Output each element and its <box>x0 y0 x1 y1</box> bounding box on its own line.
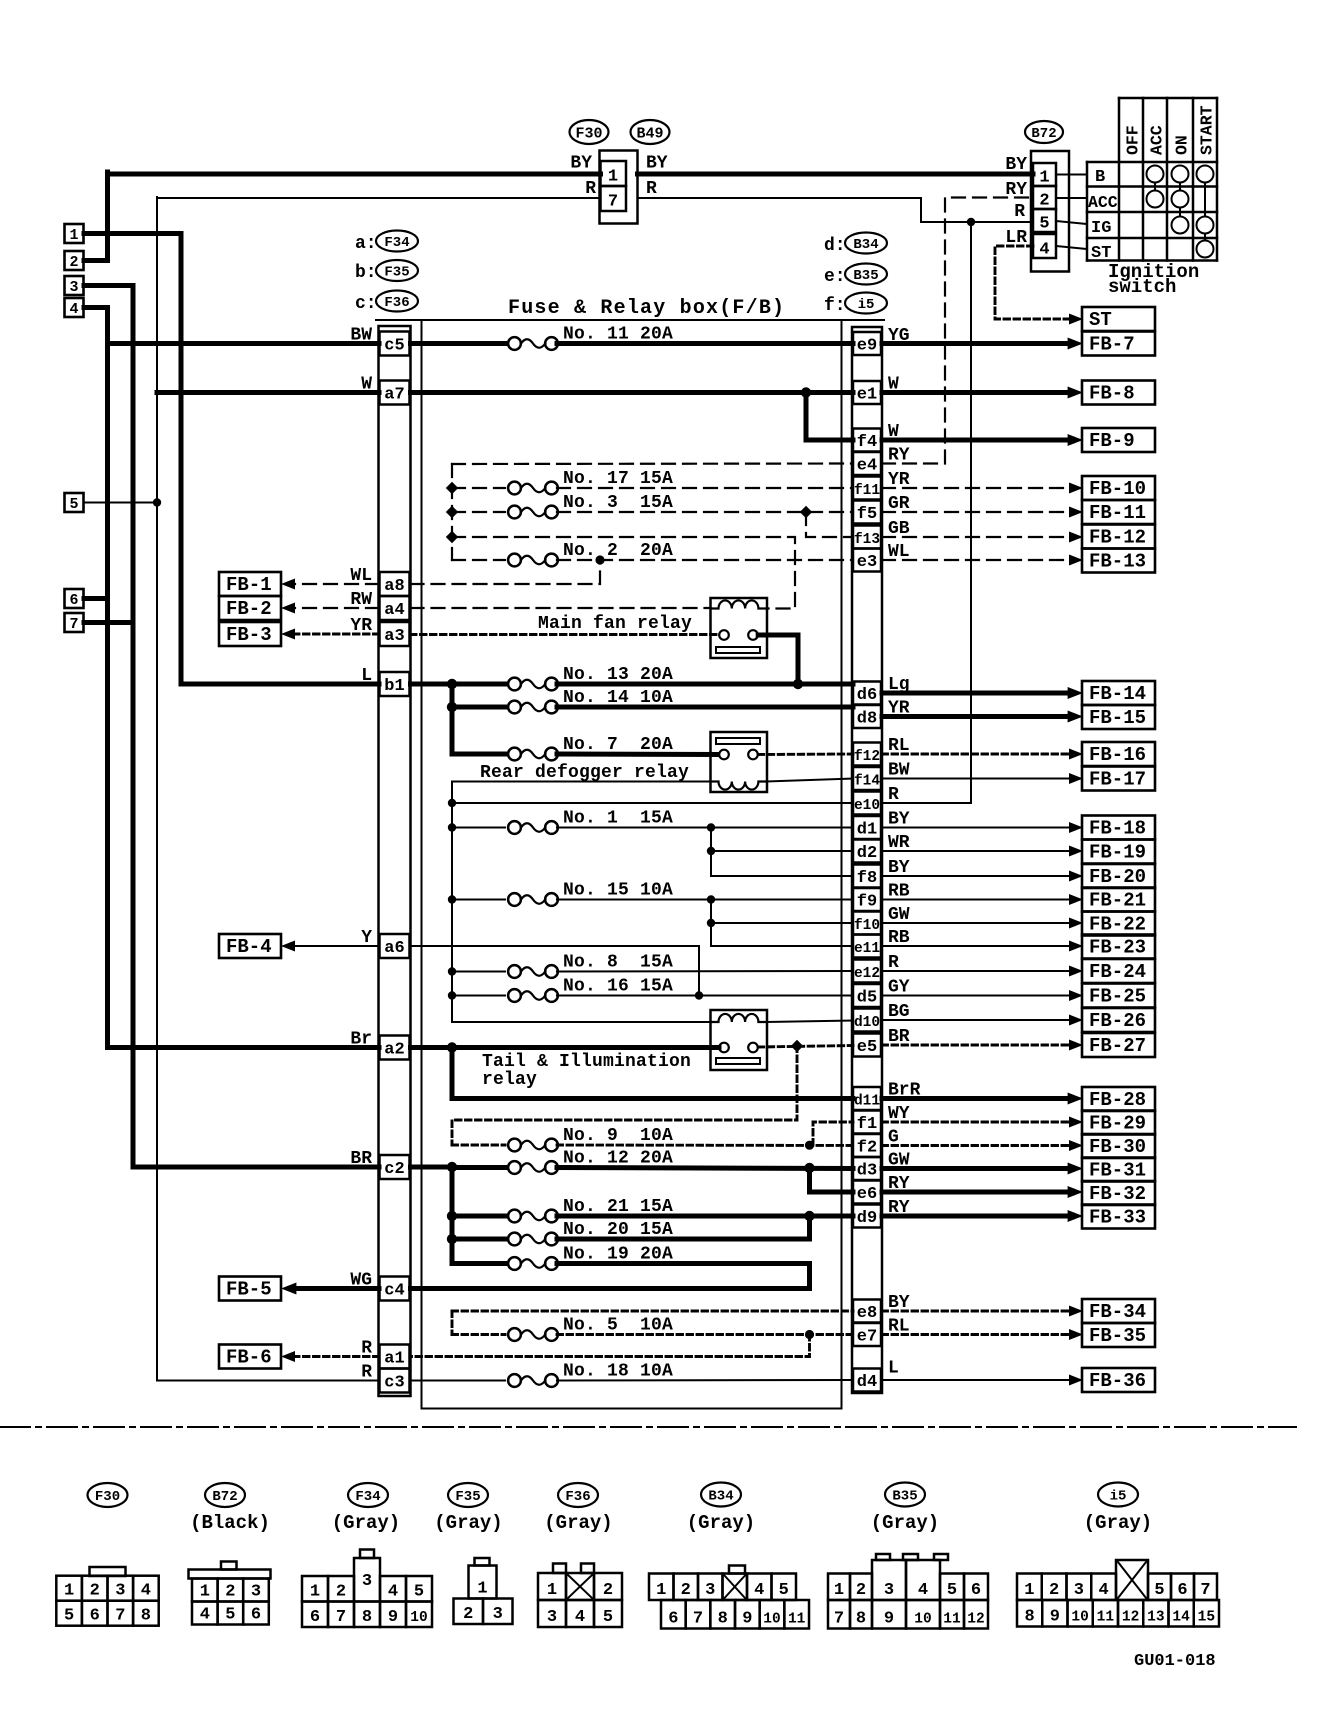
svg-text:No. 8 15A: No. 8 15A <box>563 953 673 973</box>
wire into FB-10 <box>882 487 1070 489</box>
svg-text:3: 3 <box>115 1582 125 1601</box>
cell e9 <box>853 332 881 355</box>
FB-27 box <box>1082 1033 1155 1057</box>
svg-text:No. 2 20A: No. 2 20A <box>563 541 673 561</box>
svg-text:FB-8: FB-8 <box>1089 383 1135 405</box>
svg-text:e8: e8 <box>857 1304 877 1323</box>
connector B72 body bracket <box>1031 151 1069 272</box>
FB-8 box <box>1082 381 1155 405</box>
wire into FB-23 <box>882 945 1070 947</box>
svg-text:i5: i5 <box>858 297 875 313</box>
FB-16 box <box>1082 742 1155 766</box>
bottom connector B35 pins <box>828 1574 850 1601</box>
svg-text:GU01-018: GU01-018 <box>1134 1652 1216 1671</box>
FB-31 box <box>1082 1158 1155 1182</box>
diamond junction e5 branch <box>791 1040 803 1052</box>
svg-text:3: 3 <box>884 1581 894 1600</box>
wire a3 YR to FB-3 <box>294 633 379 636</box>
cell f2 <box>853 1134 881 1157</box>
wire rail f13 branch to fan relay coil <box>452 537 795 609</box>
svg-text:F34: F34 <box>355 1489 380 1505</box>
svg-text:1: 1 <box>834 1581 844 1600</box>
FB-14 box <box>1082 681 1155 705</box>
svg-text:(Gray): (Gray) <box>687 1512 755 1534</box>
node box 1 <box>65 224 84 243</box>
FB-25 box <box>1082 984 1155 1008</box>
svg-text:7: 7 <box>1200 1581 1210 1600</box>
wire fuse No.19 down to c4 <box>557 1264 810 1289</box>
wire to fuse No.5 <box>452 1333 505 1336</box>
svg-text:a8: a8 <box>384 577 404 596</box>
bottom connector F30 ellipse <box>88 1483 128 1507</box>
svg-text:6: 6 <box>90 1607 100 1626</box>
b1 rail down <box>450 684 455 754</box>
wire tail relay output to e5 <box>758 1046 853 1048</box>
svg-text:FB-30: FB-30 <box>1089 1136 1146 1158</box>
svg-text:F36: F36 <box>384 295 409 311</box>
wire c2 BR into fusebox <box>411 1165 453 1170</box>
FB-36 box <box>1082 1368 1155 1392</box>
svg-text:c3: c3 <box>384 1374 404 1393</box>
ignition contacts row ACC <box>1147 191 1164 208</box>
svg-text:FB-27: FB-27 <box>1089 1035 1146 1057</box>
main fan relay box <box>711 598 768 658</box>
wire into FB-33 <box>882 1214 1070 1219</box>
FB-4 box <box>219 934 281 958</box>
svg-text:FB-34: FB-34 <box>1089 1301 1146 1323</box>
svg-text:d3: d3 <box>857 1162 877 1181</box>
fuse No.9 10A <box>508 1139 521 1152</box>
fuse No.21 15A <box>508 1210 521 1223</box>
bottom connector F36 pins <box>538 1573 566 1600</box>
rear defogger relay box <box>711 732 768 792</box>
FB-17 box <box>1082 767 1155 791</box>
svg-text:f10: f10 <box>854 918 880 934</box>
FB-9 box <box>1082 428 1155 452</box>
svg-text:FB-31: FB-31 <box>1089 1160 1146 1182</box>
svg-text:2: 2 <box>1049 1581 1059 1600</box>
branch No.1 down to f8 <box>710 828 712 877</box>
wire into FB-25 <box>882 995 1070 997</box>
wire into FB-24 <box>882 970 1070 972</box>
wire defogger relay output RL to f12 <box>758 753 853 756</box>
junction No.1 branch <box>707 823 715 831</box>
svg-text:FB-33: FB-33 <box>1089 1207 1146 1229</box>
svg-text:No. 1 15A: No. 1 15A <box>563 809 673 829</box>
svg-text:FB-13: FB-13 <box>1089 551 1146 573</box>
cell a2 <box>380 1036 410 1060</box>
svg-text:FB-23: FB-23 <box>1089 937 1146 959</box>
cell d6 <box>853 682 881 705</box>
svg-text:7: 7 <box>693 1610 703 1629</box>
svg-text:1: 1 <box>477 1580 487 1599</box>
svg-text:2: 2 <box>681 1581 691 1600</box>
wire a2 Br to tail relay contact <box>411 1045 720 1050</box>
svg-text:1: 1 <box>1024 1581 1034 1600</box>
wire fuse No.5 to e7 <box>557 1333 853 1336</box>
wire BrR d11 line <box>452 1096 853 1101</box>
wire into FB-14 <box>882 691 1070 696</box>
svg-text:3: 3 <box>362 1572 372 1591</box>
fuse No.18 10A <box>508 1374 521 1387</box>
cell f13 <box>853 526 881 549</box>
svg-text:F30: F30 <box>575 125 602 142</box>
svg-text:7: 7 <box>834 1610 844 1629</box>
wire into FB-34 <box>882 1310 1070 1313</box>
svg-text:F34: F34 <box>384 235 409 251</box>
svg-text:FB-6: FB-6 <box>226 1347 272 1369</box>
svg-text:c:: c: <box>355 294 377 314</box>
svg-text:B49: B49 <box>636 125 663 142</box>
junction a6 joins No.16 line <box>695 991 703 999</box>
wire fuse No.16 to d5 <box>557 995 853 997</box>
svg-text:9: 9 <box>884 1610 894 1629</box>
cell d11 <box>853 1087 881 1110</box>
svg-text:1: 1 <box>64 1582 74 1601</box>
rear defogger relay coil <box>711 782 767 790</box>
bottom connector B35 pins 3-4 tall <box>872 1560 906 1600</box>
svg-text:FB-15: FB-15 <box>1089 707 1146 729</box>
wire a3 YR to fan relay contact <box>411 633 720 636</box>
svg-text:4: 4 <box>388 1583 398 1602</box>
svg-text:6: 6 <box>251 1606 261 1625</box>
tail relay coil <box>711 1014 767 1022</box>
svg-text:2: 2 <box>463 1605 473 1624</box>
cell b1 <box>380 672 410 696</box>
svg-text:BY: BY <box>570 154 592 174</box>
svg-text:FB-35: FB-35 <box>1089 1325 1146 1347</box>
pin 1 of F30/B49 <box>601 161 627 186</box>
fuse box left edge <box>421 320 423 1409</box>
FB-11 box <box>1082 500 1155 524</box>
svg-text:FB-11: FB-11 <box>1089 502 1146 524</box>
wire a4 RW to FB-2 <box>294 607 379 609</box>
fuse No.14 10A <box>508 701 521 714</box>
dashed e8 BY top line <box>452 1310 853 1313</box>
svg-text:3: 3 <box>547 1608 557 1627</box>
svg-text:5: 5 <box>779 1581 789 1600</box>
wire d10 BG from tail coil <box>767 1021 854 1023</box>
FB-21 box <box>1082 888 1155 912</box>
svg-text:d6: d6 <box>857 686 877 705</box>
bottom connector B72 top strip <box>189 1570 271 1579</box>
branch No.15 down to e11 <box>710 900 712 947</box>
svg-text:5: 5 <box>1154 1581 1164 1600</box>
svg-text:FB-32: FB-32 <box>1089 1183 1146 1205</box>
cell f10 <box>853 912 881 935</box>
wire from box4 down to a2 rail <box>84 308 108 1048</box>
wire e10 R line <box>452 802 853 804</box>
wire into FB-32 <box>882 1190 1070 1195</box>
svg-text:ACC: ACC <box>1088 193 1118 212</box>
junction No.5 branch to a1 <box>805 1330 814 1339</box>
bottom connector F30 pins <box>56 1576 82 1601</box>
svg-text:4: 4 <box>918 1581 928 1600</box>
node box 2 <box>65 251 84 270</box>
svg-text:R: R <box>888 785 899 805</box>
bottom connector i5 ellipse <box>1098 1483 1138 1507</box>
cell e1 <box>853 381 881 404</box>
svg-text:No. 18 10A: No. 18 10A <box>563 1362 673 1382</box>
tail relay contact left <box>719 1043 729 1053</box>
wire c5 to fuse No.11 <box>411 341 506 346</box>
junction No.12 branch to e6 <box>804 1163 814 1173</box>
wire into FB-28 <box>882 1096 1070 1101</box>
svg-text:f14: f14 <box>854 774 880 790</box>
connector F30 ellipse <box>570 120 609 144</box>
svg-text:B34: B34 <box>708 1489 733 1505</box>
wire RB to e11 <box>711 945 853 947</box>
bottom connector B72 tab <box>221 1562 237 1570</box>
bottom connector B34 tab <box>729 1566 745 1574</box>
diamond junction No.3 <box>446 506 458 518</box>
pin 4 of B72 <box>1033 234 1056 258</box>
bottom connector F36 ellipse <box>558 1483 598 1507</box>
wire W into f4 <box>806 438 853 443</box>
svg-text:a2: a2 <box>384 1041 404 1060</box>
svg-text:10: 10 <box>1071 1610 1088 1626</box>
cell a4 <box>380 596 410 620</box>
svg-text:ST: ST <box>1089 309 1112 331</box>
svg-text:7: 7 <box>336 1608 346 1627</box>
svg-text:2: 2 <box>856 1581 866 1600</box>
svg-text:2: 2 <box>90 1582 100 1601</box>
svg-text:2: 2 <box>336 1583 346 1602</box>
left connector column outline <box>379 326 411 1396</box>
svg-text:7: 7 <box>608 193 618 212</box>
svg-text:(Black): (Black) <box>190 1512 270 1534</box>
rear defogger relay bar <box>716 738 760 744</box>
bottom connector F35 pin1 <box>469 1566 497 1599</box>
svg-text:F35: F35 <box>384 265 409 281</box>
svg-text:(Gray): (Gray) <box>1084 1512 1152 1534</box>
FB-18 box <box>1082 816 1155 840</box>
cell a8 <box>380 572 410 596</box>
svg-text:5: 5 <box>947 1581 957 1600</box>
pin 2 of B72 <box>1033 186 1056 209</box>
wire into FB-36 <box>882 1379 1070 1381</box>
svg-text:6: 6 <box>1177 1581 1187 1600</box>
branch No.12 to e6 RY <box>810 1168 854 1192</box>
svg-text:4: 4 <box>69 301 78 318</box>
a2 rail down to d11 <box>450 1048 455 1099</box>
cell f4 <box>853 429 881 452</box>
bottom connector F34 pin3 tall <box>354 1558 380 1602</box>
pin 1 of B72 <box>1033 163 1056 186</box>
svg-text:e7: e7 <box>857 1328 877 1347</box>
svg-text:8: 8 <box>856 1610 866 1629</box>
svg-text:a1: a1 <box>384 1350 404 1369</box>
svg-text:12: 12 <box>1122 1610 1139 1626</box>
svg-text:f2: f2 <box>857 1139 877 1158</box>
wire R from connector pin7 toward B72 pin 5 <box>638 198 1034 222</box>
svg-text:f1: f1 <box>857 1115 877 1134</box>
svg-text:B72: B72 <box>212 1489 237 1505</box>
wire a1 R to FB-6 <box>294 1355 379 1358</box>
cell e12 <box>853 960 881 983</box>
svg-text:FB-26: FB-26 <box>1089 1010 1146 1032</box>
svg-text:5: 5 <box>69 496 78 513</box>
cell f9 <box>853 888 881 911</box>
junction box5 on R vertical <box>153 498 161 506</box>
svg-text:f4: f4 <box>857 433 877 452</box>
cell e4 <box>853 452 881 475</box>
svg-text:(Gray): (Gray) <box>544 1512 612 1534</box>
wire rail to fuse No.13 <box>452 682 505 687</box>
FB-15 box <box>1082 705 1155 729</box>
dashed rail down to No.5 <box>451 1311 454 1335</box>
wire into FB-9 <box>882 438 1070 443</box>
svg-text:1: 1 <box>656 1581 666 1600</box>
wire into FB-26 <box>882 1019 1070 1021</box>
wire BY from node at x107 to connector pin1 <box>108 172 601 177</box>
ignition contacts row B <box>1147 166 1164 183</box>
wire fuse No.9 to f2 <box>557 1144 853 1147</box>
wire rail corner to fuse No.7 <box>452 752 505 757</box>
fuse No.16 15A <box>508 989 521 1002</box>
wire into FB-27 <box>882 1044 1070 1047</box>
svg-text:5: 5 <box>225 1606 235 1625</box>
fuse No.2 20A <box>508 554 521 567</box>
dash-dot separator line <box>0 1426 1296 1428</box>
bottom connector B34 ellipse <box>701 1483 741 1507</box>
FB-29 box <box>1082 1111 1155 1135</box>
wire rail to fuse No.3 <box>452 511 505 513</box>
wire fuse No.15 to f9 <box>557 899 853 901</box>
junction a2 rail <box>447 1042 457 1052</box>
wire into FB-31 <box>882 1166 1070 1171</box>
svg-text:e10: e10 <box>854 798 880 814</box>
main fan relay bar <box>716 647 760 653</box>
svg-text:8: 8 <box>1025 1608 1035 1627</box>
svg-text:e12: e12 <box>854 966 880 982</box>
svg-text:11: 11 <box>1097 1610 1115 1626</box>
junction No.1 tap <box>448 823 456 831</box>
fuse No.3 15A <box>508 506 521 519</box>
svg-text:RY: RY <box>888 446 910 466</box>
wire a4 RW to fan relay coil <box>411 607 711 609</box>
svg-text:FB-29: FB-29 <box>1089 1113 1146 1135</box>
FB-22 box <box>1082 912 1155 936</box>
svg-text:FB-25: FB-25 <box>1089 986 1146 1008</box>
svg-text:BR: BR <box>350 1149 372 1169</box>
junction No.21 tap <box>447 1211 457 1221</box>
junction No.20 joins d9 line <box>804 1211 814 1221</box>
cell d2 <box>853 840 881 863</box>
fuse No.12 20A <box>508 1161 521 1174</box>
svg-text:FB-18: FB-18 <box>1089 818 1146 840</box>
cell f14 <box>853 767 881 790</box>
cell c3 <box>380 1369 410 1393</box>
wire a8 WL to FB-1 <box>294 583 379 585</box>
fuse box bottom edge <box>422 1408 842 1410</box>
svg-text:f9: f9 <box>857 893 877 912</box>
svg-text:No. 15 10A: No. 15 10A <box>563 881 673 901</box>
FB-30 box <box>1082 1134 1155 1158</box>
svg-text:R: R <box>361 1363 372 1383</box>
junction No.14 tap <box>447 702 457 712</box>
svg-text:i5: i5 <box>1110 1489 1127 1505</box>
svg-text:FB-16: FB-16 <box>1089 744 1146 766</box>
svg-text:5: 5 <box>64 1607 74 1626</box>
wire into FB-8 <box>882 390 1070 395</box>
svg-text:d4: d4 <box>857 1373 877 1392</box>
svg-text:FB-22: FB-22 <box>1089 914 1146 936</box>
wire into FB-29 <box>882 1121 1070 1124</box>
node box 6 <box>65 589 84 608</box>
wire Br feed into cell a2 <box>108 1045 380 1050</box>
bottom connector F34 pins <box>302 1576 328 1602</box>
svg-text:9: 9 <box>1050 1608 1060 1627</box>
svg-text:5: 5 <box>603 1608 613 1627</box>
wire BW feed into cell c5 <box>108 341 380 346</box>
fuse box right edge <box>841 320 843 1409</box>
svg-text:switch: switch <box>1108 276 1176 298</box>
cell a7 <box>380 381 410 405</box>
svg-text:4: 4 <box>1099 1581 1109 1600</box>
wire fuse No.20 up to d9 line <box>557 1216 810 1239</box>
wire RY top rail from e4 <box>452 462 853 465</box>
svg-text:4: 4 <box>575 1608 585 1627</box>
diamond junction No.17 <box>446 482 458 494</box>
svg-text:d11: d11 <box>854 1094 880 1110</box>
svg-text:START: START <box>1198 105 1217 155</box>
wire into FB-15 <box>882 714 1070 719</box>
rear defogger relay contact right <box>748 750 758 760</box>
junction No.16 tap <box>448 991 456 999</box>
cell d5 <box>853 984 881 1007</box>
cell e3 <box>853 549 881 572</box>
branch No.9 up to f1 WY <box>813 1122 853 1145</box>
cell d4 <box>853 1369 881 1392</box>
junction c2 rail <box>447 1162 457 1172</box>
wire into FB-7 <box>882 341 1070 346</box>
svg-text:5: 5 <box>414 1583 424 1602</box>
fuse No.13 20A <box>508 678 521 691</box>
svg-text:4: 4 <box>754 1581 764 1600</box>
wire W feed into cell a7 <box>157 390 379 395</box>
svg-text:FB-1: FB-1 <box>226 574 272 596</box>
junction No.8 tap <box>448 967 456 975</box>
svg-text:4: 4 <box>141 1582 151 1601</box>
fuse box top edge <box>376 319 884 321</box>
cell c5 <box>380 332 410 356</box>
wire fuse No.14 to d8 <box>557 705 853 710</box>
svg-text:13: 13 <box>1147 1610 1164 1626</box>
svg-text:R: R <box>1014 202 1025 222</box>
cell e8 <box>853 1300 881 1323</box>
cell d10 <box>853 1009 881 1032</box>
svg-text:f5: f5 <box>857 505 877 524</box>
c2 rail down <box>450 1167 455 1264</box>
wire branch No.3 to f13 <box>806 512 853 537</box>
bottom connector i5 pins <box>1017 1574 1042 1601</box>
fuse No.19 20A <box>508 1257 521 1270</box>
junction a7/f4 <box>801 387 811 397</box>
junction No.9 branch <box>805 1141 814 1150</box>
junction d2 tap <box>707 847 715 855</box>
svg-text:15: 15 <box>1198 1610 1215 1626</box>
svg-text:d9: d9 <box>857 1209 877 1228</box>
wire fuse No.1 to d1 <box>557 827 853 829</box>
svg-text:FB-4: FB-4 <box>226 936 272 958</box>
FB-12 box <box>1082 525 1155 549</box>
wire fuse No.3 to f5 <box>557 511 853 513</box>
svg-text:3: 3 <box>1074 1581 1084 1600</box>
svg-text:(Gray): (Gray) <box>871 1512 939 1534</box>
svg-text:7: 7 <box>69 616 78 633</box>
cell d9 <box>853 1205 881 1228</box>
